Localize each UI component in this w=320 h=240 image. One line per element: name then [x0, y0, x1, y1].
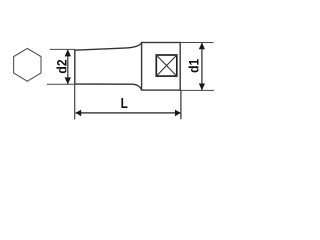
d2 arrow down: [65, 77, 71, 84]
d1 arrow down: [199, 84, 205, 91]
L right extension line: [180, 90, 182, 119]
L arrow right: [175, 110, 181, 117]
cross diagonal 1: [156, 55, 177, 76]
d1 dimension line: [201, 43, 203, 90]
d2 bottom extension line: [47, 83, 75, 85]
L left extension line: [74, 84, 76, 119]
d2 dimension line: [67, 50, 69, 84]
L dimension line: [76, 112, 181, 114]
square drive hole with cross: [156, 55, 177, 76]
d2 top extension line: [50, 48, 76, 50]
svg-text:L: L: [121, 95, 128, 111]
d1 bottom extension line: [181, 89, 214, 91]
svg-text:d2: d2: [54, 59, 70, 73]
cross diagonal 2: [156, 55, 177, 76]
drive end rectangle: [142, 43, 181, 91]
d1 top extension line: [181, 42, 214, 44]
hexagon (socket opening front view): [14, 48, 41, 81]
L arrow left: [76, 110, 82, 117]
svg-text:d1: d1: [186, 59, 202, 73]
socket body outline (side view nose/cylinder): [75, 43, 142, 90]
d2 arrow up: [65, 49, 71, 56]
d1 arrow up: [199, 43, 205, 50]
